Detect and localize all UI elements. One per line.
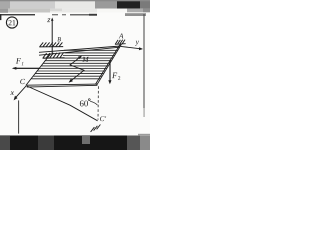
ceiling support hatching at B — [39, 42, 63, 47]
label z — [47, 18, 50, 22]
support hatching below C' — [91, 125, 101, 132]
60 degree angle arc — [90, 101, 97, 105]
force F1 arrow (shaft doubles as hatch line at y=68.4) — [14, 67, 107, 69]
top gray scan band — [0, 9, 150, 13]
plate right edge A to D (double line) — [97, 44, 122, 85]
force F2 arrow — [109, 60, 111, 82]
label x — [10, 91, 14, 95]
label C' — [100, 116, 106, 121]
moment zigzag arrow at M — [70, 56, 84, 81]
problem number badge: circle 21 — [6, 17, 17, 28]
plate left edge B' to C — [26, 54, 51, 86]
rod C to C' — [27, 86, 98, 121]
label A — [119, 33, 124, 38]
support at A — [115, 40, 126, 45]
on-plate hatched strip near B — [43, 53, 65, 59]
label B — [57, 37, 61, 41]
left border rule (lower part only) — [18, 100, 19, 133]
corner tick top-left — [0, 14, 1, 20]
x axis from C — [15, 86, 26, 98]
label F1 — [16, 58, 21, 63]
top scan band: gray left, white middle, dark right — [0, 0, 150, 9]
top border rule (patchy) — [0, 14, 35, 15]
y axis — [121, 46, 142, 49]
label C — [20, 79, 25, 84]
scan background — [0, 0, 150, 150]
label F2 — [112, 73, 117, 78]
right border rule — [144, 14, 145, 108]
label M — [82, 57, 89, 62]
label y — [135, 41, 139, 46]
z axis arrowhead — [51, 18, 54, 21]
plate top edge (double line) B to A — [39, 46, 121, 52]
z axis — [51, 20, 53, 55]
bottom black scan band — [0, 136, 150, 151]
plate bottom edge C to D (double line) — [27, 84, 98, 85]
dashed vertical D to C' — [97, 86, 99, 120]
plate face hatch lines — [32, 50, 118, 79]
label 60deg — [80, 100, 88, 106]
